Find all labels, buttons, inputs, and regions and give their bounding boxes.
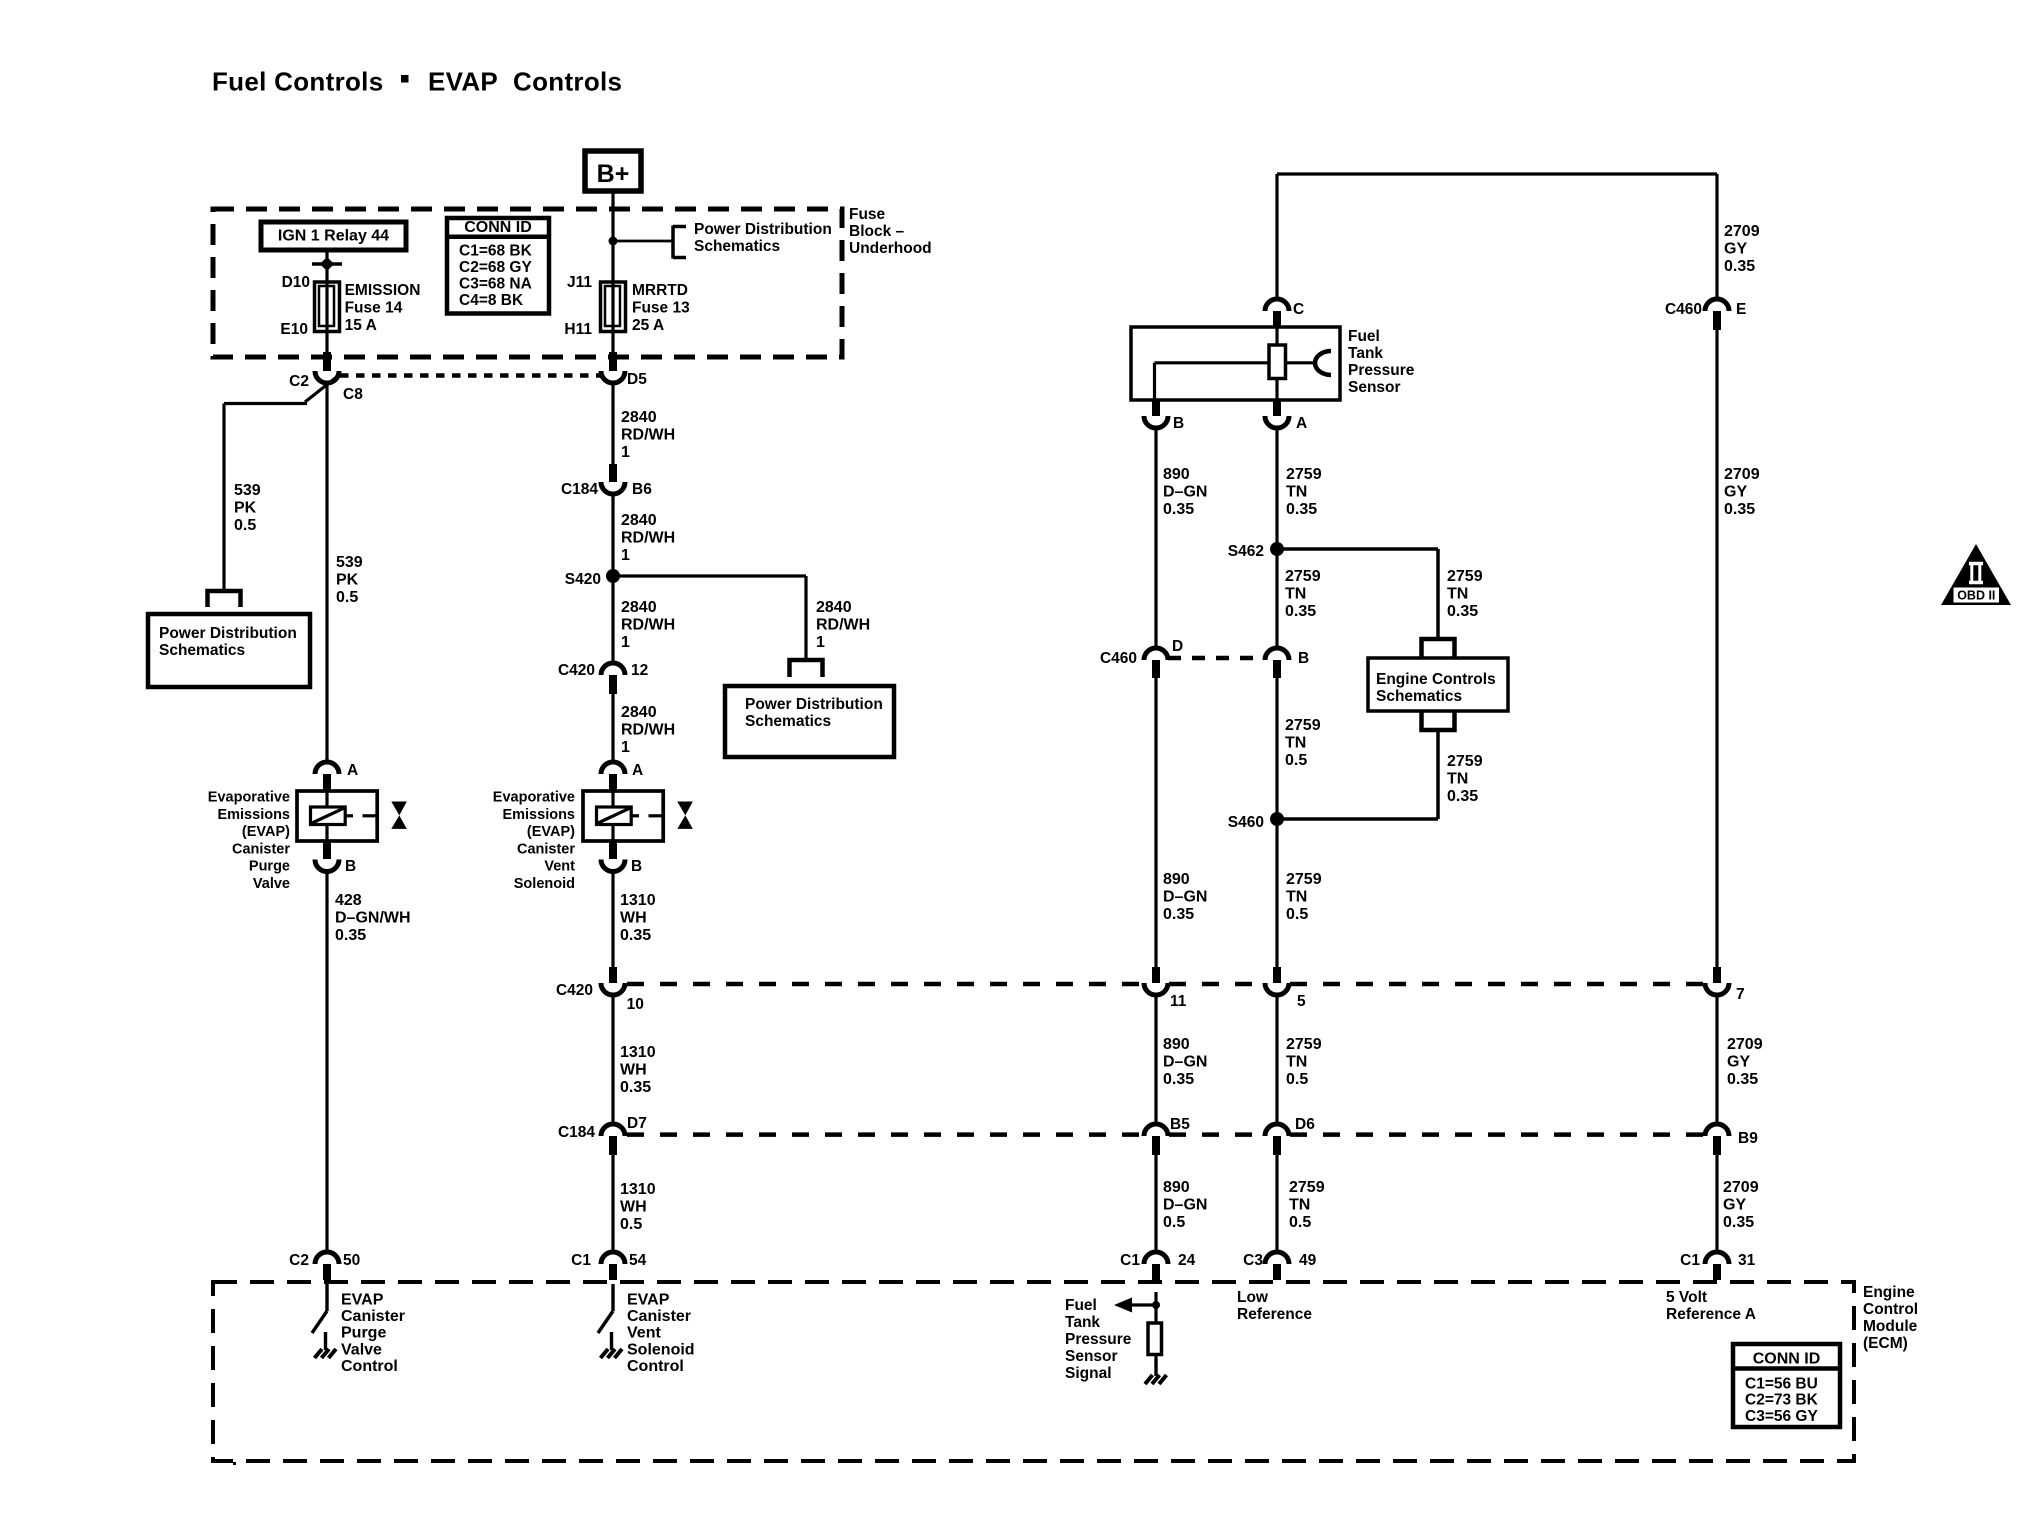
svg-text:11: 11 bbox=[1170, 993, 1187, 1010]
svg-text:C2=73 BK: C2=73 BK bbox=[1745, 1392, 1819, 1409]
svg-text:Signal: Signal bbox=[1065, 1365, 1112, 1382]
svg-text:C1=68 BK: C1=68 BK bbox=[459, 243, 533, 260]
svg-text:C2: C2 bbox=[289, 1252, 309, 1269]
svg-text:MRRTD: MRRTD bbox=[632, 282, 688, 299]
svg-text:TN: TN bbox=[1285, 735, 1306, 752]
svg-text:Vent: Vent bbox=[544, 859, 575, 875]
svg-text:Solenoid: Solenoid bbox=[627, 1341, 695, 1358]
svg-text:890: 890 bbox=[1163, 1036, 1190, 1053]
svg-text:B: B bbox=[1298, 650, 1309, 667]
svg-text:1: 1 bbox=[621, 547, 630, 564]
svg-text:WH: WH bbox=[620, 1062, 647, 1079]
svg-text:C420: C420 bbox=[558, 662, 595, 679]
svg-text:Tank: Tank bbox=[1348, 345, 1383, 362]
svg-text:1310: 1310 bbox=[620, 1181, 656, 1198]
svg-text:D7: D7 bbox=[627, 1115, 647, 1132]
svg-text:Sensor: Sensor bbox=[1065, 1348, 1118, 1365]
svg-text:B6: B6 bbox=[632, 481, 652, 498]
svg-text:Fuel Controls: Fuel Controls bbox=[212, 67, 383, 97]
svg-text:RD/WH: RD/WH bbox=[816, 617, 870, 634]
svg-text:2759: 2759 bbox=[1286, 1036, 1322, 1053]
svg-text:A: A bbox=[632, 762, 643, 779]
svg-text:1: 1 bbox=[621, 634, 630, 651]
svg-text:2759: 2759 bbox=[1285, 717, 1321, 734]
svg-text:2759: 2759 bbox=[1447, 568, 1483, 585]
svg-text:D–GN: D–GN bbox=[1163, 889, 1207, 906]
svg-text:C: C bbox=[1293, 301, 1304, 318]
svg-text:2759: 2759 bbox=[1447, 753, 1483, 770]
svg-text:Underhood: Underhood bbox=[849, 240, 932, 257]
svg-text:A: A bbox=[347, 762, 358, 779]
svg-text:GY: GY bbox=[1724, 241, 1747, 258]
svg-text:Fuse 13: Fuse 13 bbox=[632, 300, 690, 317]
svg-text:EVAP: EVAP bbox=[627, 1292, 670, 1309]
svg-text:Control: Control bbox=[341, 1358, 398, 1375]
svg-text:Fuse 14: Fuse 14 bbox=[345, 300, 403, 317]
svg-text:Canister: Canister bbox=[627, 1308, 691, 1325]
svg-text:Pressure: Pressure bbox=[1348, 362, 1415, 379]
svg-text:1: 1 bbox=[621, 444, 630, 461]
svg-text:PK: PK bbox=[336, 572, 359, 589]
svg-text:C1=56 BU: C1=56 BU bbox=[1745, 1376, 1818, 1393]
svg-text:C1: C1 bbox=[1120, 1252, 1140, 1269]
svg-text:0.5: 0.5 bbox=[1163, 1214, 1185, 1231]
svg-text:Reference A: Reference A bbox=[1666, 1306, 1756, 1323]
svg-text:C1: C1 bbox=[571, 1252, 591, 1269]
svg-text:J11: J11 bbox=[567, 274, 592, 291]
svg-text:1310: 1310 bbox=[620, 1044, 656, 1061]
svg-text:Purge: Purge bbox=[341, 1325, 386, 1342]
svg-text:D6: D6 bbox=[1295, 1116, 1315, 1133]
svg-text:0.5: 0.5 bbox=[234, 517, 256, 534]
svg-text:Solenoid: Solenoid bbox=[514, 876, 575, 892]
svg-text:D–GN/WH: D–GN/WH bbox=[335, 910, 411, 927]
svg-text:428: 428 bbox=[335, 892, 362, 909]
svg-text:GY: GY bbox=[1723, 1197, 1746, 1214]
svg-text:5 Volt: 5 Volt bbox=[1666, 1289, 1707, 1306]
svg-text:E10: E10 bbox=[280, 321, 308, 338]
svg-text:D–GN: D–GN bbox=[1163, 1197, 1207, 1214]
svg-text:TN: TN bbox=[1286, 889, 1307, 906]
svg-text:Sensor: Sensor bbox=[1348, 379, 1401, 396]
svg-text:2709: 2709 bbox=[1727, 1036, 1763, 1053]
svg-text:Power Distribution: Power Distribution bbox=[159, 625, 297, 642]
svg-text:2840: 2840 bbox=[621, 704, 657, 721]
svg-text:GY: GY bbox=[1727, 1054, 1750, 1071]
svg-text:Reference: Reference bbox=[1237, 1306, 1312, 1323]
svg-text:CONN ID: CONN ID bbox=[464, 219, 532, 236]
svg-text:RD/WH: RD/WH bbox=[621, 530, 675, 547]
svg-text:WH: WH bbox=[620, 910, 647, 927]
svg-text:S460: S460 bbox=[1228, 814, 1264, 831]
svg-text:1310: 1310 bbox=[620, 892, 656, 909]
svg-text:S420: S420 bbox=[565, 571, 601, 588]
svg-text:C1: C1 bbox=[1680, 1252, 1700, 1269]
svg-text:50: 50 bbox=[343, 1252, 360, 1269]
svg-text:0.5: 0.5 bbox=[1286, 906, 1308, 923]
svg-text:IGN 1 Relay 44: IGN 1 Relay 44 bbox=[278, 228, 389, 245]
svg-text:2709: 2709 bbox=[1724, 466, 1760, 483]
svg-text:C3=68 NA: C3=68 NA bbox=[459, 276, 532, 293]
svg-text:31: 31 bbox=[1738, 1252, 1756, 1269]
svg-text:B9: B9 bbox=[1738, 1130, 1758, 1147]
svg-text:0.35: 0.35 bbox=[1447, 603, 1478, 620]
svg-text:2840: 2840 bbox=[621, 599, 657, 616]
svg-text:0.35: 0.35 bbox=[1724, 501, 1755, 518]
svg-text:0.5: 0.5 bbox=[620, 1216, 642, 1233]
svg-text:C8: C8 bbox=[343, 386, 363, 403]
svg-text:0.35: 0.35 bbox=[1163, 906, 1194, 923]
svg-text:Fuel: Fuel bbox=[1348, 328, 1380, 345]
svg-text:A: A bbox=[1296, 415, 1307, 432]
svg-text:RD/WH: RD/WH bbox=[621, 617, 675, 634]
svg-text:1: 1 bbox=[621, 739, 630, 756]
svg-text:CONN ID: CONN ID bbox=[1753, 1351, 1821, 1368]
svg-text:10: 10 bbox=[627, 996, 644, 1013]
svg-text:7: 7 bbox=[1736, 986, 1745, 1003]
svg-text:TN: TN bbox=[1447, 586, 1468, 603]
svg-text:24: 24 bbox=[1178, 1252, 1196, 1269]
svg-text:C3=56 GY: C3=56 GY bbox=[1745, 1408, 1818, 1425]
svg-text:0.35: 0.35 bbox=[620, 927, 651, 944]
svg-text:EVAP: EVAP bbox=[428, 67, 498, 97]
svg-text:Fuel: Fuel bbox=[1065, 1297, 1097, 1314]
svg-text:0.35: 0.35 bbox=[620, 1079, 651, 1096]
svg-text:PK: PK bbox=[234, 500, 257, 517]
svg-text:0.35: 0.35 bbox=[1286, 501, 1317, 518]
svg-text:B5: B5 bbox=[1170, 1116, 1190, 1133]
svg-text:2759: 2759 bbox=[1289, 1179, 1325, 1196]
svg-text:Schematics: Schematics bbox=[745, 713, 831, 730]
svg-text:Control: Control bbox=[627, 1358, 684, 1375]
svg-text:D–GN: D–GN bbox=[1163, 1054, 1207, 1071]
svg-text:5: 5 bbox=[1297, 993, 1306, 1010]
svg-text:2840: 2840 bbox=[621, 409, 657, 426]
svg-text:Tank: Tank bbox=[1065, 1314, 1100, 1331]
svg-text:54: 54 bbox=[629, 1252, 647, 1269]
svg-text:49: 49 bbox=[1299, 1252, 1317, 1269]
svg-text:Block –: Block – bbox=[849, 223, 905, 240]
svg-text:Valve: Valve bbox=[341, 1341, 382, 1358]
svg-text:25 A: 25 A bbox=[632, 317, 664, 334]
svg-text:2840: 2840 bbox=[621, 512, 657, 529]
svg-text:D–GN: D–GN bbox=[1163, 484, 1207, 501]
svg-text:0.5: 0.5 bbox=[1286, 1071, 1308, 1088]
svg-text:Engine: Engine bbox=[1863, 1284, 1915, 1301]
svg-text:Power Distribution: Power Distribution bbox=[745, 696, 883, 713]
svg-text:RD/WH: RD/WH bbox=[621, 427, 675, 444]
svg-text:0.5: 0.5 bbox=[1285, 752, 1307, 769]
svg-text:Emissions: Emissions bbox=[502, 807, 575, 823]
svg-text:Controls: Controls bbox=[513, 67, 622, 97]
svg-text:12: 12 bbox=[631, 662, 648, 679]
svg-text:C420: C420 bbox=[556, 982, 593, 999]
svg-text:Schematics: Schematics bbox=[1376, 688, 1462, 705]
svg-text:2759: 2759 bbox=[1286, 871, 1322, 888]
svg-text:C460: C460 bbox=[1665, 301, 1702, 318]
svg-text:0.35: 0.35 bbox=[1285, 603, 1316, 620]
svg-text:Canister: Canister bbox=[341, 1308, 405, 1325]
svg-text:Canister: Canister bbox=[232, 841, 290, 857]
svg-text:890: 890 bbox=[1163, 871, 1190, 888]
svg-text:B: B bbox=[345, 858, 356, 875]
svg-text:H11: H11 bbox=[564, 321, 592, 338]
svg-text:S462: S462 bbox=[1228, 543, 1264, 560]
svg-text:2709: 2709 bbox=[1724, 223, 1760, 240]
svg-text:RD/WH: RD/WH bbox=[621, 722, 675, 739]
svg-text:1: 1 bbox=[816, 634, 825, 651]
svg-text:Engine Controls: Engine Controls bbox=[1376, 671, 1496, 688]
svg-text:Module: Module bbox=[1863, 1318, 1918, 1335]
svg-text:890: 890 bbox=[1163, 466, 1190, 483]
svg-text:Fuse: Fuse bbox=[849, 206, 886, 223]
svg-text:C4=8 BK: C4=8 BK bbox=[459, 292, 524, 309]
svg-text:Pressure: Pressure bbox=[1065, 1331, 1132, 1348]
svg-text:TN: TN bbox=[1286, 484, 1307, 501]
svg-text:2709: 2709 bbox=[1723, 1179, 1759, 1196]
svg-text:0.35: 0.35 bbox=[1724, 258, 1755, 275]
svg-text:TN: TN bbox=[1286, 1054, 1307, 1071]
svg-text:539: 539 bbox=[336, 554, 363, 571]
svg-text:(EVAP): (EVAP) bbox=[242, 824, 290, 840]
svg-text:Schematics: Schematics bbox=[159, 642, 245, 659]
svg-text:(EVAP): (EVAP) bbox=[527, 824, 575, 840]
svg-text:0.5: 0.5 bbox=[336, 589, 358, 606]
svg-text:0.35: 0.35 bbox=[1727, 1071, 1758, 1088]
svg-text:TN: TN bbox=[1289, 1197, 1310, 1214]
svg-text:C2: C2 bbox=[289, 373, 309, 390]
svg-text:C2=68 GY: C2=68 GY bbox=[459, 259, 532, 276]
svg-text:0.5: 0.5 bbox=[1289, 1214, 1311, 1231]
svg-text:B+: B+ bbox=[597, 160, 630, 188]
svg-text:Power Distribution: Power Distribution bbox=[694, 221, 832, 238]
svg-text:539: 539 bbox=[234, 482, 261, 499]
svg-text:Evaporative: Evaporative bbox=[208, 790, 290, 806]
svg-text:0.35: 0.35 bbox=[1447, 788, 1478, 805]
svg-text:C184: C184 bbox=[558, 1124, 595, 1141]
svg-text:0.35: 0.35 bbox=[335, 927, 366, 944]
svg-text:E: E bbox=[1736, 301, 1746, 318]
svg-text:GY: GY bbox=[1724, 484, 1747, 501]
svg-text:Control: Control bbox=[1863, 1301, 1918, 1318]
svg-text:TN: TN bbox=[1285, 586, 1306, 603]
svg-text:15 A: 15 A bbox=[345, 317, 377, 334]
svg-text:EMISSION: EMISSION bbox=[345, 282, 421, 299]
svg-text:Evaporative: Evaporative bbox=[493, 790, 575, 806]
svg-text:2840: 2840 bbox=[816, 599, 852, 616]
svg-text:0.35: 0.35 bbox=[1723, 1214, 1754, 1231]
svg-text:Valve: Valve bbox=[253, 876, 290, 892]
svg-text:C460: C460 bbox=[1100, 650, 1137, 667]
svg-text:B: B bbox=[1173, 415, 1184, 432]
svg-text:Schematics: Schematics bbox=[694, 238, 780, 255]
svg-text:Canister: Canister bbox=[517, 841, 575, 857]
svg-text:EVAP: EVAP bbox=[341, 1292, 384, 1309]
svg-text:Low: Low bbox=[1237, 1289, 1269, 1306]
svg-text:C184: C184 bbox=[561, 481, 598, 498]
svg-text:2759: 2759 bbox=[1285, 568, 1321, 585]
svg-text:D10: D10 bbox=[282, 274, 310, 291]
svg-text:Purge: Purge bbox=[249, 859, 290, 875]
svg-text:OBD II: OBD II bbox=[1957, 589, 1995, 603]
svg-text:B: B bbox=[631, 858, 642, 875]
svg-text:0.35: 0.35 bbox=[1163, 501, 1194, 518]
svg-text:0.35: 0.35 bbox=[1163, 1071, 1194, 1088]
svg-text:Emissions: Emissions bbox=[217, 807, 290, 823]
svg-text:C3: C3 bbox=[1243, 1252, 1263, 1269]
svg-text:(ECM): (ECM) bbox=[1863, 1335, 1908, 1352]
svg-text:D5: D5 bbox=[627, 371, 647, 388]
svg-text:2759: 2759 bbox=[1286, 466, 1322, 483]
svg-text:WH: WH bbox=[620, 1199, 647, 1216]
svg-text:TN: TN bbox=[1447, 771, 1468, 788]
svg-text:890: 890 bbox=[1163, 1179, 1190, 1196]
svg-text:D: D bbox=[1172, 638, 1183, 655]
svg-text:Vent: Vent bbox=[627, 1325, 661, 1342]
